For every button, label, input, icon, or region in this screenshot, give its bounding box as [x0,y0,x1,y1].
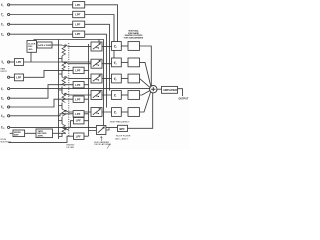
wire [121,45,128,47]
svg-text:MULTIPLEX: MULTIPLEX [1,141,12,143]
wire [84,84,88,86]
wire [121,61,128,63]
wire [84,69,88,71]
subcarrier oscillator SCO1 [91,42,102,51]
wire staircase to LPF7 [24,70,74,77]
wire clock bottom down [30,52,32,62]
wire [85,34,107,107]
low-pass filter LPF9 [73,96,84,102]
ladder bus [58,40,60,140]
wire [85,15,114,59]
wire [121,77,128,79]
wire staircase [10,88,150,90]
summing junction [150,86,157,93]
VSB shaping filter F2 [112,58,122,67]
low-pass filter LPF10 [73,111,84,117]
svg-text:400~: 400~ [29,48,34,51]
svg-text:OUTPUT: OUTPUT [179,98,189,101]
input terminal (f10) [8,115,10,117]
band-pass roof filter BPF [118,125,128,131]
svg-text:AMPL: AMPL [38,135,45,138]
low-pass filter LPF1 [73,2,85,8]
svg-text:FILTER: FILTER [67,147,75,149]
low-pass filter LPF7 [73,67,84,73]
svg-text:LPF: LPF [76,134,81,138]
wire to summer [140,92,151,112]
node f4 input terminal [8,33,10,35]
svg-text:LPF: LPF [16,60,21,64]
wire to summer [140,46,152,86]
svg-text:LPF: LPF [75,32,80,36]
vertical bus [88,44,90,136]
level box B2 [128,58,140,67]
wire [157,88,162,90]
svg-text:LPF: LPF [75,112,80,116]
wire [69,63,112,65]
input terminal (f9) [8,106,10,108]
clock oscillator box [27,41,37,53]
divider ladder zigzag resistors [62,45,65,133]
wire staircase [10,114,73,116]
wire [84,113,88,115]
svg-text:AMPLIFIER: AMPLIFIER [163,88,177,92]
svg-text:(300 - 4000~): (300 - 4000~) [115,139,128,141]
subcarrier oscillator SCO5 [91,108,102,117]
wire [121,94,128,96]
svg-text:LPF: LPF [75,22,80,26]
level box B3 [128,74,140,83]
wire staircase [10,99,73,107]
arrow roof filter pointer [107,144,110,149]
input terminal (f8) [8,97,10,99]
wire [84,135,89,137]
low-pass filter LPF8 [73,82,84,88]
wire [10,14,73,16]
svg-text:LPF: LPF [75,3,80,7]
svg-text:HIGH FREQUENCY: HIGH FREQUENCY [110,121,130,123]
wire [52,44,59,46]
wire [69,46,112,48]
svg-text:OSC: OSC [28,46,33,48]
wire [69,111,112,113]
input terminal (f6) [8,76,10,78]
svg-text:LPF: LPF [75,69,80,73]
wire [24,61,92,63]
subcarrier oscillator SCO6 [96,126,106,135]
input terminal (f11) [8,126,10,128]
node f2 input terminal [8,13,10,15]
wire taps [59,45,63,137]
wire [10,33,73,35]
gate and timer box [37,42,52,48]
wire clock top to bus [34,40,104,126]
wire [10,76,15,78]
svg-text:LPF: LPF [75,97,80,101]
wire staircase [10,85,73,99]
arrow to oscillators [100,136,102,141]
svg-text:AMP: AMP [14,134,19,137]
svg-text:LPF: LPF [76,119,81,123]
low-pass filter LPF6 [14,74,23,81]
wire [69,77,112,79]
svg-text:GATE & TIMER: GATE & TIMER [38,44,52,47]
subcarrier oscillator SCO2 [91,59,102,68]
wire to summer [128,93,153,129]
wire to summer [140,78,151,87]
svg-text:LPF: LPF [75,83,80,87]
low-pass filter LPF2 [73,11,85,17]
wire [10,4,73,6]
wire to summer [140,91,151,96]
svg-text:INPUT: INPUT [1,71,8,73]
VSB shaping filter F3 [112,74,122,83]
wire [10,61,15,63]
input terminal (f5) [8,61,10,63]
annotation vestigial sideband [124,30,144,40]
wire output stub [178,89,183,96]
svg-text:LPF: LPF [16,75,21,79]
output amplifier [162,86,178,93]
level box B5 [128,108,140,117]
gang dashed line [68,43,70,137]
wire [84,98,88,100]
mixer amplifier box A1 [13,130,25,137]
level box B1 [128,42,140,51]
wire [69,94,112,96]
input terminal (f7) [8,88,10,90]
record amplifier box A2 [36,129,53,138]
subcarrier oscillator SCO3 [91,74,102,83]
wire [106,128,109,130]
wire [85,5,118,42]
VSB shaping filter F5 [112,108,122,117]
svg-text:BPF: BPF [120,127,126,131]
wire [85,24,110,90]
wire to summer [140,62,151,86]
level box B4 [128,91,140,100]
wire [10,121,118,128]
svg-text:FOR SUBCARRIERS: FOR SUBCARRIERS [124,37,144,40]
low-pass filter LPF11 [74,118,85,124]
node f3 input terminal [8,23,10,25]
wire [98,40,100,43]
low-pass filter LPF5 [14,59,23,66]
VSB shaping filter F4 [112,91,122,100]
wire [84,121,96,131]
subcarrier oscillator SCO4 [91,91,102,100]
svg-text:LPF: LPF [75,13,80,17]
wiper arrows [65,45,69,130]
low-pass filter LPF4 [73,31,85,37]
wire [121,111,128,113]
low-pass filter LPF12 [74,133,85,139]
node f1 input terminal [8,4,10,6]
svg-text:OSCILLATORS: OSCILLATORS [94,143,110,146]
svg-text:ROOF FILTER: ROOF FILTER [116,136,131,138]
labels [1,3,5,130]
wire [10,132,36,134]
wire [53,132,67,134]
bottom input line [8,136,73,142]
wire [10,23,73,25]
VSB shaping filter F1 [112,42,122,51]
low-pass filter LPF3 [73,21,85,27]
